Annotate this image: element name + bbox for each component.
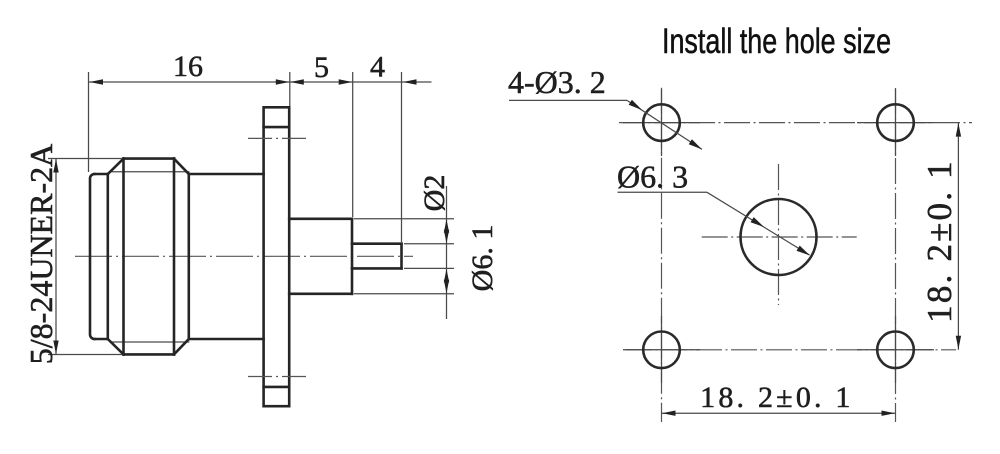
hole center line bottom horizontal [626,349,956,351]
center hole [741,199,817,275]
dim text 4 [370,51,385,84]
arrow dim4 right outside [403,79,417,84]
dim text 5 [314,51,329,84]
insulator barrel end face [351,219,354,294]
right dim text 18.2 [920,159,959,323]
center leader arrow lower [797,246,811,256]
svg-text:5/8-24UNER-2A: 5/8-24UNER-2A [23,144,59,364]
arrow right dim bottom [956,336,961,350]
thread dim line [55,159,57,355]
label 4-dia3.2 [508,64,606,100]
right dim line vertical [957,123,959,350]
dim line 4 with tail [353,81,432,83]
thread extension line top [48,158,122,160]
nut top flat [124,157,175,160]
pin dia extension line bottom [404,267,454,269]
flange bottom hole center line [248,376,307,378]
nut bottom flat [124,353,175,356]
arrow dim16 left [90,79,104,84]
nut chamfer top-left [108,159,124,174]
dim line 5 [290,81,353,83]
bottom dim text 18.2 [700,381,853,414]
label dia6.3 [617,159,688,195]
mounting hole top-right [877,104,914,141]
hole cross solid segments bottom-right [857,316,934,383]
dim text 16 [173,50,203,83]
mounting hole top-left [643,104,680,141]
nut flat left edge [122,159,125,355]
arrow bottom dim right [882,411,896,416]
dim 16 extension line left [88,72,90,172]
svg-text:4: 4 [370,51,385,84]
arrow thread bottom [53,341,58,355]
hole center line left vertical [661,88,663,422]
nut chamfer top-right [174,159,189,174]
mounting hole bottom-left [643,332,680,369]
flange plate outline [264,107,290,406]
svg-text:Ø6. 3: Ø6. 3 [617,159,688,195]
svg-text:16: 16 [173,50,203,83]
arrow dia2 top outside [444,230,449,244]
center leader arrow upper [751,217,765,227]
arrow bottom dim left [662,411,676,416]
arrow dim5 right [339,79,353,84]
leader line to top-left hole [627,100,702,149]
thread extension line bottom [48,354,122,356]
nut flat right edge [173,159,176,355]
cap top edge [95,173,108,176]
nut chamfer bottom-right [174,339,189,354]
nut across-flats bottom line [110,341,189,343]
arrow dia61 top inside [444,219,449,233]
svg-text:5: 5 [314,51,329,84]
svg-text:4-Ø3. 2: 4-Ø3. 2 [508,64,606,100]
center hole horizontal center line [702,236,857,238]
svg-text:18. 2±0. 1: 18. 2±0. 1 [700,381,853,414]
arrow dia61 bottom inside [444,280,449,294]
dim extension line at barrel end [352,72,354,217]
svg-text:Install the hole size: Install the hole size [662,22,891,61]
barrel dia extension line bottom [354,293,454,295]
barrel dia extension line top [354,218,454,220]
pin dia extension line top [404,243,454,245]
contact pin end face [400,244,403,269]
arrow thread top [53,159,58,173]
nut chamfer bottom-left [108,339,124,354]
insulator barrel top [289,218,352,221]
cap/nut boundary [107,174,110,339]
insulator barrel bottom [289,292,352,295]
flange top hole center line [248,137,307,139]
title [662,22,891,61]
dim line 16 [89,81,290,83]
nut across-flats top line [110,171,189,173]
hole center line top horizontal [619,122,972,124]
nut/body boundary [188,174,191,339]
hole center line right vertical [895,88,897,422]
leader arrow at end [689,139,702,149]
arrow dia2 bottom outside [444,269,449,283]
thread label 5/8-24UNER-2A [23,144,59,364]
arrow dim5 left [290,79,304,84]
arrow right dim top [956,123,961,137]
label 4-dia3.2 underline [509,99,627,101]
shared diameter dim line [446,186,448,319]
label dia 2 [418,175,451,212]
svg-text:Ø2: Ø2 [418,175,451,212]
arrow dim16 right [276,79,290,84]
leader arrow near bend [629,100,642,110]
svg-text:18. 2±0. 1: 18. 2±0. 1 [920,159,959,323]
body bottom edge [189,338,264,341]
mounting hole bottom-right [877,332,914,369]
hole cross solid segments top-right [857,89,934,156]
flange hole bottom line [264,386,290,389]
bottom dim line [662,412,896,414]
contact pin top [352,242,402,245]
body top edge [189,173,264,176]
dim extension line at pin end [401,72,403,242]
svg-text:Ø6. 1: Ø6. 1 [466,225,499,292]
leader line to center hole [707,192,810,255]
cap bottom edge [95,338,108,341]
center hole vertical center line [778,164,780,305]
hole cross solid segments bottom-left [623,316,700,383]
axis center line [75,255,413,257]
hole cross solid segments top-left [623,89,700,156]
label dia6.3 underline [618,191,708,193]
contact pin bottom [352,267,402,270]
coupling nut cap [90,174,95,339]
flange hole top line [264,126,290,129]
dim extension line at flange face [289,72,291,106]
label dia 6.1 [466,225,499,292]
